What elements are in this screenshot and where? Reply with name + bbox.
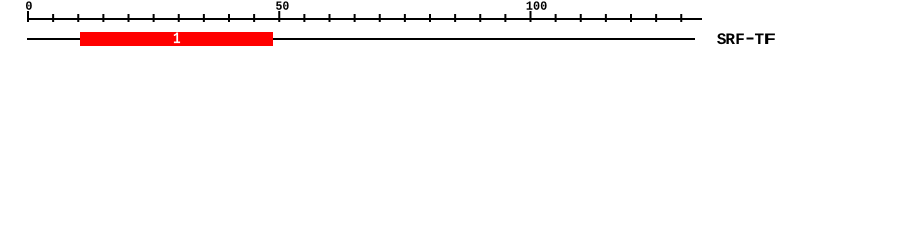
ruler minor tick 10 bbox=[77, 14, 79, 22]
ruler minor tick 15 bbox=[102, 14, 104, 22]
sequence line bbox=[27, 38, 695, 40]
ruler line bbox=[27, 18, 702, 20]
ruler minor tick 55 bbox=[303, 14, 305, 22]
ruler major tick 0 bbox=[27, 11, 29, 22]
ruler minor tick 110 bbox=[580, 14, 582, 22]
domain box 1 (SRF-TF, red) bbox=[80, 32, 273, 46]
ruler minor tick 120 bbox=[630, 14, 632, 22]
ruler minor tick 95 bbox=[504, 14, 506, 22]
ruler minor tick 70 bbox=[379, 14, 381, 22]
domain name label SRF-TF bbox=[717, 33, 775, 44]
ruler minor tick 5 bbox=[52, 14, 54, 22]
ruler major tick 100 bbox=[530, 11, 532, 22]
ruler minor tick 20 bbox=[128, 14, 130, 22]
ruler minor tick 45 bbox=[253, 14, 255, 22]
ruler minor tick 35 bbox=[203, 14, 205, 22]
ruler minor tick 30 bbox=[178, 14, 180, 22]
ruler minor tick 130 bbox=[680, 14, 682, 22]
ruler minor tick 25 bbox=[153, 14, 155, 22]
ruler label 50 bbox=[276, 1, 289, 9]
ruler minor tick 115 bbox=[605, 14, 607, 22]
ruler minor tick 105 bbox=[555, 14, 557, 22]
ruler major tick 50 bbox=[278, 11, 280, 22]
ruler minor tick 85 bbox=[454, 14, 456, 22]
ruler minor tick 75 bbox=[404, 14, 406, 22]
ruler minor tick 40 bbox=[228, 14, 230, 22]
ruler minor tick 125 bbox=[655, 14, 657, 22]
ruler minor tick 90 bbox=[479, 14, 481, 22]
ruler label 100 bbox=[527, 1, 547, 9]
ruler minor tick 65 bbox=[354, 14, 356, 22]
ruler minor tick 60 bbox=[329, 14, 331, 22]
ruler label 0 bbox=[26, 1, 32, 9]
domain number 1 bbox=[174, 33, 180, 44]
ruler minor tick 80 bbox=[429, 14, 431, 22]
